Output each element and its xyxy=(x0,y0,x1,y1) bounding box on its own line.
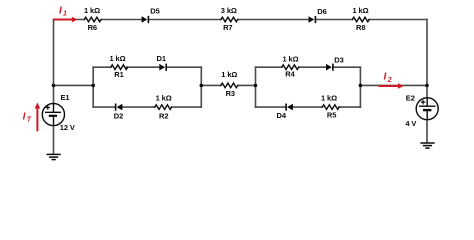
svg-text:1 kΩ: 1 kΩ xyxy=(282,54,298,63)
wire bottom branch left lead D2 xyxy=(93,106,115,108)
diode D6 xyxy=(309,16,316,23)
current arrow I1 xyxy=(54,17,78,23)
wire R6 to D5 xyxy=(102,19,142,21)
wire R4 to D3 xyxy=(299,66,326,68)
svg-text:T: T xyxy=(27,117,32,124)
ground at E2 xyxy=(420,143,434,148)
wire right block right rail xyxy=(359,67,361,107)
diode D3 xyxy=(326,64,333,71)
wire D5 to R7 xyxy=(149,19,221,21)
wire left block right rail xyxy=(200,67,202,107)
svg-text:D3: D3 xyxy=(334,56,343,65)
wire right bottom branch lead D4 xyxy=(256,106,286,108)
resistor R2 xyxy=(155,105,172,110)
node junction left block input xyxy=(91,84,95,88)
wire D1 to right rail xyxy=(167,66,201,68)
svg-text:E2: E2 xyxy=(406,94,415,103)
wire R8 to top right corner xyxy=(369,19,427,21)
svg-text:I: I xyxy=(23,111,26,122)
svg-text:I: I xyxy=(59,5,62,16)
diode D2 xyxy=(116,104,123,111)
wire R1 to D1 xyxy=(127,66,160,68)
svg-text:E1: E1 xyxy=(61,93,70,102)
node junction E2 branch xyxy=(425,84,429,88)
voltage source E2 xyxy=(416,98,438,120)
svg-text:R6: R6 xyxy=(88,23,97,32)
svg-text:1 kΩ: 1 kΩ xyxy=(156,94,172,103)
node junction right block input xyxy=(254,84,258,88)
wire E1 to ground stem xyxy=(53,126,55,154)
svg-text:R7: R7 xyxy=(223,23,232,32)
wire right vertical xyxy=(426,20,428,98)
wire right block left rail xyxy=(255,67,257,107)
resistor R6 xyxy=(84,17,101,22)
svg-text:1 kΩ: 1 kΩ xyxy=(221,70,237,79)
svg-text:R1: R1 xyxy=(114,70,123,79)
svg-text:1 kΩ: 1 kΩ xyxy=(109,54,125,63)
svg-text:3 kΩ: 3 kΩ xyxy=(221,6,237,15)
node junction E1 branch xyxy=(52,84,56,88)
wire E2 to ground stem xyxy=(426,120,428,143)
svg-text:D6: D6 xyxy=(317,7,326,16)
resistor R7 xyxy=(221,17,238,22)
svg-text:D5: D5 xyxy=(150,7,159,16)
wire left block to R3 xyxy=(201,84,221,86)
wire R5 to right rail xyxy=(339,106,360,108)
wire E1 to left block xyxy=(54,84,94,86)
resistor R5 xyxy=(322,105,339,110)
svg-text:2: 2 xyxy=(387,77,392,84)
voltage source E1 xyxy=(42,103,64,125)
resistor R3 xyxy=(221,83,238,88)
wire R2 to right rail xyxy=(172,106,202,108)
wire top branch left lead R1 xyxy=(93,66,111,68)
svg-text:R4: R4 xyxy=(285,69,295,78)
wire D6 to R8 xyxy=(316,19,352,21)
wire D3 to right rail xyxy=(334,66,361,68)
current arrow I2 xyxy=(378,83,404,89)
wire right block to E2 branch xyxy=(360,84,427,86)
current arrow IT xyxy=(35,102,41,131)
wire D2 to R2 xyxy=(122,106,155,108)
wire R3 to right block xyxy=(238,84,256,86)
node junction left block output xyxy=(200,84,204,88)
svg-text:1 kΩ: 1 kΩ xyxy=(84,6,100,15)
svg-text:R2: R2 xyxy=(159,112,168,121)
wire right top branch lead R4 xyxy=(256,66,282,68)
wire R7 to D6 xyxy=(238,19,309,21)
ground at E1 xyxy=(47,154,61,159)
svg-text:R5: R5 xyxy=(327,111,336,120)
svg-text:D4: D4 xyxy=(277,111,287,120)
svg-text:R8: R8 xyxy=(356,23,365,32)
wire D4 to R5 xyxy=(293,106,323,108)
svg-text:D2: D2 xyxy=(114,112,123,121)
svg-text:R3: R3 xyxy=(226,89,235,98)
resistor R1 xyxy=(111,65,128,70)
diode D1 xyxy=(159,64,166,71)
diode D5 xyxy=(142,16,149,23)
wire top left segment xyxy=(54,19,85,21)
resistor R8 xyxy=(352,17,369,22)
node junction right block output xyxy=(359,84,363,88)
wire left block left rail xyxy=(92,67,94,107)
diode D4 xyxy=(286,104,293,111)
svg-text:12 V: 12 V xyxy=(60,123,75,132)
svg-text:I: I xyxy=(384,72,387,83)
svg-text:D1: D1 xyxy=(157,54,166,63)
wire left vertical xyxy=(53,20,55,104)
resistor R4 xyxy=(282,65,299,70)
svg-text:1 kΩ: 1 kΩ xyxy=(352,6,368,15)
svg-text:1 kΩ: 1 kΩ xyxy=(321,94,337,103)
svg-text:1: 1 xyxy=(63,11,67,18)
svg-text:4 V: 4 V xyxy=(405,119,416,128)
